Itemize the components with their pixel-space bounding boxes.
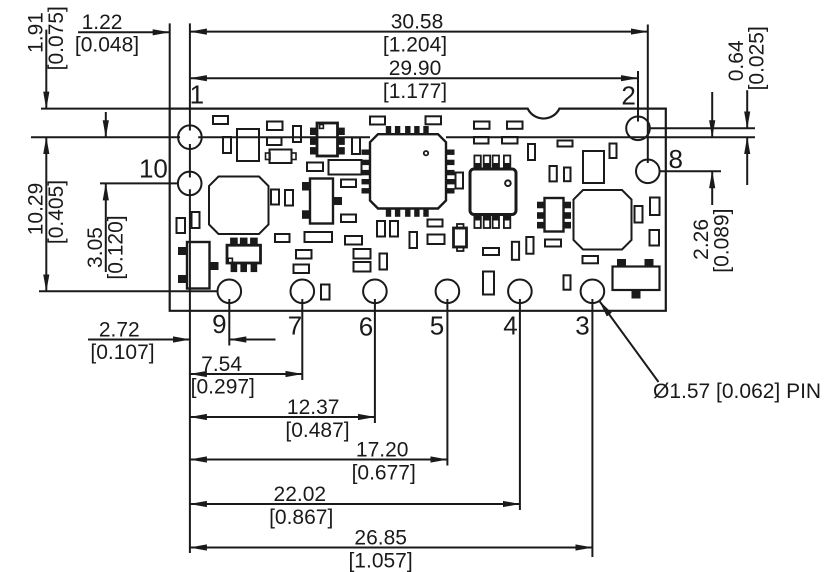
capacitor C21 (483, 272, 494, 295)
svg-text:[0.297]: [0.297] (191, 376, 255, 399)
svg-text:[0.089]: [0.089] (711, 208, 734, 272)
pin 9 (218, 280, 242, 304)
transistor Q2 SOT-23 (303, 183, 311, 191)
svg-text:3: 3 (575, 311, 589, 341)
pin 5 (436, 280, 460, 304)
resistor R8 (502, 137, 518, 144)
diode D2 with end tabs (270, 150, 292, 164)
svg-text:[0.405]: [0.405] (45, 180, 68, 244)
dimension 1.22 [0.048] edge to pin1 (78, 31, 170, 33)
wire pin10 extension down through board (189, 189, 191, 310)
svg-text:[0.048]: [0.048] (75, 34, 139, 57)
pin 4 (508, 280, 532, 304)
capacitor C14 (329, 160, 362, 175)
svg-text:[1.204]: [1.204] (383, 34, 447, 57)
wire pin10 label leader (100, 182, 178, 184)
transistor Q3 SOT-89 (618, 260, 626, 268)
dimension 7.54 [0.297] pin1 to pin7 (190, 373, 302, 375)
dimension 29.90 [1.177] pin1 to pin2 (190, 77, 638, 79)
svg-text:30.58: 30.58 (391, 10, 444, 33)
pin 3 (581, 280, 605, 304)
wire pin9 extension down (228, 299, 230, 346)
svg-text:1.22: 1.22 (82, 11, 123, 34)
resistor R3 (370, 117, 385, 125)
dimension 17.20 [0.677] pin1 to pin5 (190, 459, 448, 461)
resistor R15 (345, 236, 362, 245)
capacitor C31 (564, 275, 571, 289)
svg-text:Ø1.57 [0.062] PIN: Ø1.57 [0.062] PIN (653, 380, 821, 403)
resistor R23 (583, 256, 599, 263)
op-amp U3 SOIC-8 (474, 156, 480, 170)
wire pin1 centerline left segment (31, 136, 180, 138)
dimension 2.26 [0.089] pin1 line to pin8 line (711, 92, 713, 137)
svg-text:1: 1 (190, 79, 204, 109)
capacitor C7 (293, 126, 301, 142)
microcontroller U2 QFN-20 (386, 127, 390, 135)
dimension 3.05 [0.120] pin1 line to pin10 line (105, 112, 107, 137)
resistor R21 (545, 240, 561, 247)
wire pin4 extension down (519, 299, 521, 510)
pin 6 (363, 280, 387, 304)
comparator U5 SOT-23-6 (538, 202, 545, 208)
resistor R18 (428, 220, 443, 227)
wire board top edge extension (41, 108, 170, 110)
wire pin6 extension down (374, 299, 376, 423)
resistor R17 (354, 262, 371, 272)
capacitor C25 (610, 144, 617, 159)
dimension 2.72 [0.107] pin1 to pin9 (88, 339, 190, 341)
svg-text:[0.075]: [0.075] (45, 6, 68, 70)
pin 2 (626, 117, 650, 141)
capacitor C11 (285, 190, 293, 206)
capacitor C26 (550, 166, 557, 181)
pin 10 (178, 172, 202, 196)
capacitor C9 (528, 144, 535, 160)
svg-text:22.02: 22.02 (274, 483, 327, 506)
dimension 0.64 [0.025] pin1 line to pin2 line (746, 90, 748, 128)
dimension 12.37 [0.487] pin1 to pin6 (190, 416, 375, 418)
dimension 22.02 [0.867] pin1 to pin4 (190, 503, 520, 505)
wire pin8 label leader (660, 170, 721, 172)
diode D1 vertical with end caps (457, 224, 464, 229)
resistor R13 (296, 250, 312, 259)
capacitor C19 (390, 221, 398, 237)
dimension 30.58 [1.204] overall (190, 31, 648, 33)
svg-text:[1.177]: [1.177] (383, 80, 447, 103)
capacitor C29 (650, 198, 660, 216)
capacitor C24 (583, 151, 604, 183)
capacitor C16 (321, 285, 330, 300)
resistor R7 (474, 137, 489, 144)
regulator U4 SOT-23-6 (231, 238, 238, 245)
resistor R20 (483, 248, 499, 255)
capacitor C27 (564, 168, 571, 182)
wire pin7 extension down (301, 299, 303, 380)
capacitor C2 (223, 137, 231, 153)
capacitor C3 (237, 129, 259, 161)
svg-text:12.37: 12.37 (287, 396, 340, 419)
svg-text:7.54: 7.54 (201, 353, 242, 376)
capacitor C30 (650, 230, 660, 246)
resistor R22 (558, 141, 573, 147)
transistor Q1 SOT-23 (179, 248, 188, 255)
capacitor C32 (456, 173, 464, 189)
wire bottom pin row centerline (39, 290, 218, 292)
callout leader arrow to pin 3 (599, 301, 658, 382)
capacitor C12 (177, 218, 186, 233)
svg-text:[1.057]: [1.057] (348, 550, 412, 572)
wire pin1 extension down (189, 311, 191, 553)
dimension 26.85 [1.057] pin1 to pin3 (190, 547, 593, 549)
capacitor C18 (377, 221, 385, 237)
capacitor C1 (213, 116, 228, 124)
resistor R19 (428, 235, 445, 245)
resistor R10 (307, 163, 323, 172)
svg-text:[0.025]: [0.025] (746, 26, 769, 90)
wire pin1 centerline right segment (446, 136, 755, 138)
capacitor C15 (305, 232, 333, 242)
wire board-left-edge extension up (169, 23, 171, 108)
resistor R12 (341, 215, 356, 223)
svg-text:2.72: 2.72 (99, 318, 140, 341)
resistor R5 (474, 122, 490, 129)
svg-text:[0.677]: [0.677] (352, 462, 416, 485)
svg-text:4: 4 (503, 311, 517, 341)
resistor R2 (267, 138, 282, 146)
svg-text:9: 9 (212, 309, 226, 339)
resistor R1 (267, 122, 283, 131)
pin 1 (178, 125, 202, 149)
capacitor C10 (271, 190, 279, 205)
svg-text:[0.120]: [0.120] (104, 215, 127, 279)
svg-text:8: 8 (668, 144, 682, 174)
wire pin1 extension up (189, 23, 191, 130)
svg-text:29.90: 29.90 (389, 57, 442, 80)
resistor R11 (341, 180, 356, 188)
svg-text:17.20: 17.20 (356, 438, 409, 461)
capacitor C23 (526, 237, 533, 254)
pin 7 (291, 280, 315, 304)
wire pin5 extension down (446, 299, 448, 466)
PCB board outline with top notch (170, 109, 666, 311)
svg-text:[0.107]: [0.107] (90, 341, 154, 364)
op-amp U1 SOT-23-6 (311, 128, 318, 134)
wire pin2 extension up (637, 71, 639, 122)
resistor R6 (507, 122, 523, 129)
svg-text:10: 10 (139, 154, 168, 184)
svg-text:7: 7 (288, 311, 302, 341)
capacitor C8 (352, 138, 360, 155)
inductor L1 (209, 177, 269, 235)
capacitor C13 (192, 212, 200, 228)
wire pin2 centerline right extension (650, 127, 755, 129)
resistor R14 (294, 265, 310, 274)
wire pin1 centerline mid segment (198, 136, 370, 138)
wire pin1-pin10 extension segment (189, 144, 191, 178)
svg-text:2: 2 (621, 81, 635, 111)
svg-text:5: 5 (430, 311, 444, 341)
dimension 10.29 [0.405] pin1 line to bottom pin line (45, 137, 47, 291)
dimension 1.91 [0.075] top edge to pin1 line (45, 30, 47, 109)
capacitor C17 (380, 254, 388, 270)
resistor R16 (354, 249, 371, 259)
svg-text:6: 6 (359, 312, 373, 342)
wire pin8 extension up (647, 25, 649, 164)
svg-text:[0.867]: [0.867] (269, 506, 333, 529)
resistor R9 (275, 234, 290, 242)
wire pin3 extension down (591, 299, 593, 557)
svg-text:[0.487]: [0.487] (285, 419, 349, 442)
svg-text:26.85: 26.85 (354, 526, 407, 549)
pin 8 (636, 160, 660, 184)
capacitor C20 (410, 232, 418, 248)
capacitor C28 (635, 206, 643, 223)
resistor R4 (426, 116, 442, 124)
capacitor C22 (512, 242, 519, 260)
inductor L2 (574, 190, 632, 250)
